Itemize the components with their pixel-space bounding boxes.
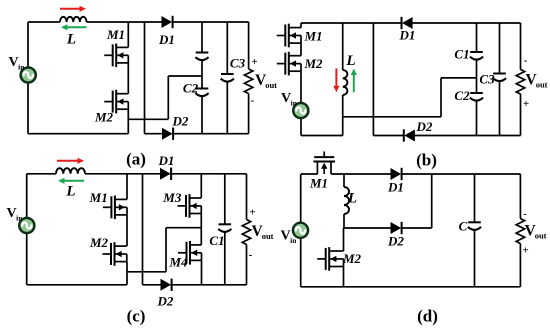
svg-text:C3: C3	[230, 56, 246, 71]
c: M2 source wire	[126, 262, 128, 285]
svg-text:D1: D1	[158, 32, 175, 47]
b: diode D1	[402, 17, 413, 29]
b: capacitor C1	[470, 52, 483, 60]
a: D2 cathode rail	[173, 133, 249, 135]
c: transistor M1	[103, 196, 127, 220]
d: output column bottom	[519, 244, 521, 287]
svg-text:M2: M2	[342, 251, 362, 266]
a: bottom rail	[28, 133, 128, 135]
svg-text:M2: M2	[94, 110, 114, 125]
a: M1 drain wire	[127, 22, 129, 47]
d: C column top	[474, 174, 476, 222]
c: M3-M4 link wire	[200, 214, 202, 245]
a: C2 column mid	[201, 61, 203, 89]
svg-text:-: -	[524, 55, 528, 67]
svg-text:+: +	[522, 245, 528, 257]
a: red current arrow	[60, 6, 86, 12]
b: capacitor C3	[493, 74, 506, 82]
a: transistor M2	[104, 90, 128, 114]
b: inductor L	[343, 70, 348, 95]
d: left vertical wire	[300, 174, 302, 287]
c: C1 column bottom	[224, 232, 226, 284]
d: output column top	[519, 174, 521, 219]
a: output column bottom	[248, 94, 250, 134]
svg-text:+: +	[249, 207, 255, 219]
svg-text:+: +	[251, 56, 257, 68]
svg-text:M1: M1	[303, 28, 322, 43]
b: resistor Vout	[516, 70, 524, 95]
d: top wire right	[402, 173, 521, 175]
c: top wire right	[171, 173, 246, 175]
a: C3 column top	[226, 22, 228, 74]
d: L column bottom	[343, 214, 345, 228]
svg-text:M1: M1	[106, 27, 125, 42]
a: transistor M1	[104, 44, 128, 68]
d: M2 source wire	[343, 267, 345, 287]
d: D2 cathode wire	[402, 227, 432, 229]
svg-text:L: L	[345, 53, 355, 69]
a: diode D2	[162, 128, 173, 140]
a: capacitor C3	[221, 74, 234, 82]
svg-text:(c): (c)	[127, 307, 146, 326]
svg-text:-: -	[251, 95, 255, 107]
b: wire to C1C2 midpoint	[441, 77, 477, 79]
d: M2 drain wire	[343, 228, 345, 251]
a: top wire right	[173, 21, 249, 23]
c: D2 anode wire	[143, 284, 161, 286]
a: capacitor C2 upper	[195, 53, 208, 61]
svg-text:C1: C1	[454, 47, 469, 62]
d: diode D1	[391, 168, 402, 180]
svg-text:M1: M1	[309, 176, 328, 191]
d: capacitor C	[468, 222, 481, 230]
b: green current arrow	[351, 69, 357, 93]
c: inductor L	[56, 168, 85, 174]
svg-text:L: L	[347, 191, 357, 207]
svg-text:C2: C2	[454, 88, 470, 103]
svg-text:L: L	[65, 184, 75, 200]
svg-text:+: +	[523, 98, 529, 110]
c: riser to M3M4 midpoint	[165, 228, 167, 272]
b: C1C2 column top	[476, 23, 478, 52]
b: mid wire	[343, 116, 441, 118]
d: resistor Vout	[516, 219, 524, 244]
b: capacitor C2	[470, 93, 483, 101]
b: diode D2	[404, 129, 415, 141]
c: M2 source mid wire	[127, 271, 166, 273]
c: red current arrow	[57, 158, 84, 164]
b: L column top	[342, 23, 344, 70]
c: D2 cathode rail	[172, 284, 247, 286]
a: left vertical wire	[27, 22, 29, 134]
svg-text:M2: M2	[303, 56, 323, 71]
svg-text:(a): (a)	[126, 150, 146, 169]
c: diode D1	[160, 168, 171, 180]
a: C2 column bottom	[201, 97, 203, 134]
c: M1-M2 link wire	[126, 215, 128, 246]
b: D2 line right	[415, 135, 521, 137]
a: D2 anode wire	[145, 133, 163, 135]
b: C3 column top	[499, 23, 501, 74]
b: top wire left	[301, 22, 402, 24]
d: diode D2	[391, 222, 402, 234]
d: top wire left	[301, 173, 317, 175]
d: bottom rail	[301, 286, 521, 288]
a: capacitor C2 lower	[195, 89, 208, 97]
b: node drop wire	[372, 23, 374, 136]
svg-text:M4: M4	[168, 255, 188, 270]
a: node A drop wire	[144, 22, 146, 134]
a: M1-M2 link wire	[127, 63, 129, 94]
c: green current arrow	[58, 178, 84, 184]
d: top wire mid	[331, 173, 391, 175]
svg-text:(d): (d)	[417, 307, 438, 326]
c: C1 column top	[224, 174, 226, 225]
d: L column top	[343, 174, 345, 187]
svg-text:-: -	[249, 249, 253, 261]
svg-text:-: -	[523, 208, 527, 220]
a: resistor Vout	[244, 69, 252, 94]
svg-text:(b): (b)	[416, 151, 437, 170]
a: diode D1	[162, 16, 173, 28]
a: M2 source wire	[127, 109, 129, 134]
c: capacitor C1	[218, 224, 231, 232]
svg-text:C2: C2	[183, 81, 199, 96]
a: riser to C2 midpoint	[167, 76, 169, 119]
b: output column bottom	[520, 94, 522, 136]
svg-text:M3: M3	[162, 190, 182, 205]
a: C2 column top	[201, 22, 203, 53]
a: wire to C2 midpoint	[168, 75, 202, 77]
b: source Vin	[293, 103, 308, 118]
b: C3 column bottom	[499, 82, 501, 136]
b: M1 drain wire	[300, 23, 302, 28]
svg-text:D1: D1	[399, 28, 416, 43]
c: top wire mid	[85, 173, 160, 175]
svg-text:D2: D2	[416, 119, 433, 134]
svg-text:C: C	[459, 219, 468, 234]
a: C3 column bottom	[226, 82, 228, 134]
c: output column top	[246, 174, 248, 220]
c: diode D2	[161, 279, 172, 291]
c: source Vin	[19, 218, 34, 233]
d: transistor M1	[313, 152, 335, 175]
svg-text:D2: D2	[157, 294, 174, 309]
svg-text:C3: C3	[479, 72, 495, 87]
c: M3 drain wire	[200, 174, 202, 198]
c: left vertical wire	[26, 174, 28, 285]
c: transistor M3	[178, 194, 202, 218]
a: top wire mid	[87, 21, 162, 23]
c: bottom rail left	[27, 284, 127, 286]
c: wire to M3M4 midpoint	[166, 227, 201, 229]
b: C1C2 column mid	[476, 60, 478, 93]
b: D2 line left	[373, 135, 403, 137]
svg-text:D1: D1	[158, 153, 175, 168]
svg-text:M2: M2	[89, 235, 109, 250]
a: top wire left	[28, 21, 60, 23]
a: M2 source mid wire	[128, 118, 168, 120]
c: output column bottom	[246, 245, 248, 285]
b: top wire right	[413, 22, 521, 24]
d: D2 riser	[431, 174, 433, 228]
c: M1 drain wire	[126, 174, 128, 200]
svg-text:C1: C1	[209, 233, 224, 248]
b: M2 source wire	[300, 71, 302, 135]
b: bottom wire left	[301, 135, 343, 137]
b: Vin- riser	[342, 117, 344, 136]
svg-text:M1: M1	[89, 190, 108, 205]
b: M1-M2 link wire	[300, 43, 302, 56]
svg-text:D2: D2	[387, 234, 404, 249]
b: red current arrow	[333, 69, 339, 93]
svg-text:L: L	[66, 32, 76, 48]
c: M4 source wire	[201, 260, 203, 284]
d: inductor L	[344, 187, 349, 214]
b: output column top	[520, 23, 522, 70]
c: transistor M4	[178, 241, 202, 265]
c: node A drop wire	[142, 174, 144, 285]
b: transistor M2	[277, 52, 301, 76]
d: C column bottom	[474, 230, 476, 286]
a: inductor L	[60, 17, 87, 22]
d: mid wire	[344, 227, 391, 229]
d: source Vin	[293, 223, 308, 238]
a: source Vin	[21, 67, 36, 82]
d: transistor M2	[317, 247, 343, 271]
b: mid riser	[440, 78, 442, 117]
b: transistor M1	[277, 24, 301, 48]
b: L column bottom	[342, 95, 344, 117]
a: green current arrow	[61, 24, 87, 30]
c: resistor Vout	[242, 220, 250, 245]
c: top wire left	[27, 173, 56, 175]
b: C1C2 column bottom	[476, 101, 478, 136]
c: transistor M2	[103, 242, 127, 266]
svg-text:D1: D1	[387, 180, 404, 195]
svg-text:D2: D2	[172, 114, 189, 129]
a: output column top	[248, 22, 250, 69]
